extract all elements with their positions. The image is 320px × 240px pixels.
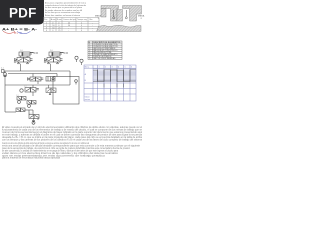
black traces in diagram	[98, 70, 131, 82]
svg-text:4: 4	[46, 30, 47, 32]
svg-text:2: 2	[105, 66, 106, 68]
cylinder 1.0 label	[20, 50, 24, 52]
wire valve2 to cylinder2	[51, 56, 60, 58]
bottom wire	[5, 110, 33, 112]
svg-text:4: 4	[118, 66, 119, 68]
PDF badge	[0, 0, 44, 25]
legend table	[88, 41, 122, 59]
valve 1.1 roller	[14, 61, 16, 63]
cylinder 2.0 label	[50, 50, 54, 52]
svg-text:1.3: 1.3	[16, 95, 19, 97]
cylinder 2.0	[49, 52, 64, 56]
svg-text:5: 5	[125, 66, 126, 68]
valve 1.1 exhaust triangles	[18, 62, 29, 64]
svg-text:PDF: PDF	[9, 5, 37, 20]
hatched upper block left	[101, 6, 119, 22]
supply unit below 0.2	[29, 110, 38, 124]
svg-text:Tiempo seg: Tiempo seg	[77, 19, 87, 21]
svg-text:8: 8	[89, 58, 90, 60]
limit valve a1	[17, 97, 26, 104]
wire loop	[53, 71, 79, 104]
bottom hatched bar	[97, 25, 142, 31]
pressure source 0.1	[2, 70, 7, 77]
valve 2.1 exhaust triangles	[48, 62, 59, 64]
svg-text:0.2: 0.2	[29, 113, 32, 115]
valve 2.1 roller	[44, 61, 46, 63]
svg-text:0: 0	[52, 30, 53, 32]
paragraph block 2	[2, 142, 141, 160]
red arc	[3, 31, 15, 33]
svg-text:4: 4	[81, 30, 82, 32]
limit valve b1	[27, 101, 36, 108]
svg-text:1: 1	[99, 66, 100, 68]
valve 2.1 (5/2)	[45, 58, 63, 63]
svg-text:Pos: Pos	[44, 19, 47, 21]
table T1	[44, 18, 100, 32]
paragraph block 1	[2, 126, 143, 141]
svg-text:Obs: Obs	[89, 19, 93, 21]
tiny labels in circuit	[16, 86, 32, 115]
hatched middle column	[117, 10, 123, 22]
svg-text:1.2: 1.2	[24, 86, 27, 88]
valve 1.2 with pilot circles	[20, 85, 39, 96]
svg-text:A mm: A mm	[51, 18, 56, 21]
svg-text:las dos mesas que se presenta: las dos mesas que se presenta en el plan…	[45, 6, 83, 9]
valve 0.3 (middle)	[28, 74, 44, 85]
svg-text:VALV DE SIMULTANEIDAD: VALV DE SIMULTANEIDAD	[93, 57, 116, 60]
air supply bus wire	[4, 64, 70, 74]
label MESA 1	[95, 15, 102, 21]
label MESA 2	[138, 15, 145, 21]
hatched upper block right	[123, 6, 142, 22]
svg-text:25: 25	[58, 30, 60, 32]
slot arrows	[114, 10, 127, 17]
cylinder 2.0 port marks	[64, 52, 68, 54]
limit valve a0	[16, 108, 25, 112]
page background	[0, 0, 149, 198]
blue arc	[17, 31, 31, 33]
svg-text:con los tiempos y las carreras: con los tiempos y las carreras de los pi…	[2, 138, 143, 141]
blue step diagram table	[84, 65, 136, 101]
top text block	[45, 2, 87, 17]
svg-text:A+ B+ = B- A-: A+ B+ = B- A-	[2, 27, 38, 32]
valve 2.2 box	[46, 85, 56, 95]
valve 1.1 (5/2)	[15, 58, 33, 63]
top-right section drawing	[95, 6, 145, 32]
svg-text:Carrera del pist: Carrera del pist	[63, 18, 76, 21]
component 0.4 box	[46, 77, 55, 82]
left node label	[1, 68, 5, 70]
svg-text:B mm: B mm	[57, 19, 62, 21]
svg-text:6: 6	[131, 66, 132, 68]
svg-text:vacion: vacion	[85, 99, 90, 101]
svg-text:de los dos que se encuentran m: de los dos que se encuentran mas abajo	[45, 11, 81, 14]
cylinder 1.0 port marks	[34, 52, 38, 54]
wire valve1 to cylinder1	[21, 56, 30, 58]
svg-text:Estos dos cuadros se hacen al: Estos dos cuadros se hacen al mismo	[45, 14, 81, 17]
svg-text:3: 3	[112, 66, 113, 68]
left small hatched stub	[101, 9, 106, 18]
fine grid lines in band	[93, 69, 136, 82]
horizontal wire y85	[5, 76, 70, 112]
supply valve 0.2	[29, 110, 39, 122]
svg-text:para la materia de neumatica i: para la materia de neumatica industrial …	[2, 157, 61, 160]
gauge circles right	[75, 56, 83, 84]
cylinder 1.0	[19, 52, 34, 56]
sequence formula	[2, 27, 38, 32]
